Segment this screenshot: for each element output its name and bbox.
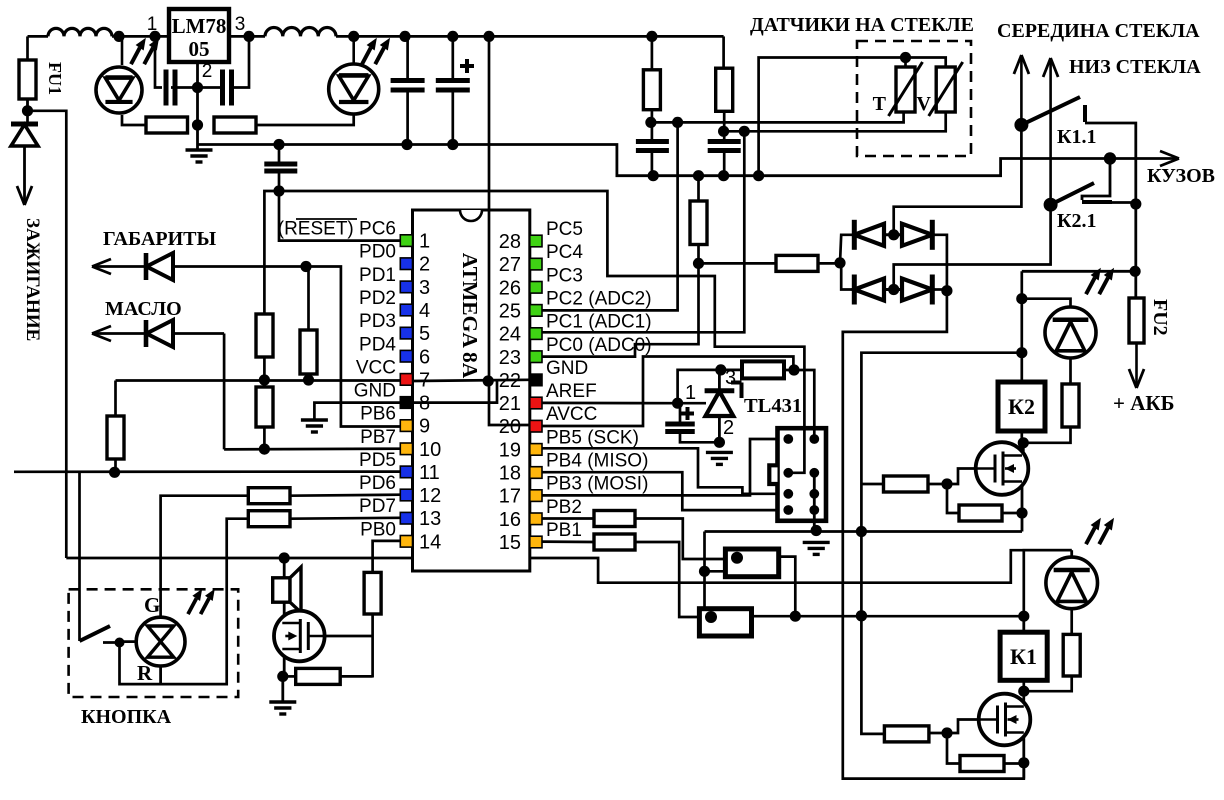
svg-text:PD4: PD4 <box>359 334 396 355</box>
svg-text:22: 22 <box>499 370 521 392</box>
svg-text:10: 10 <box>419 439 441 461</box>
svg-text:G: G <box>144 593 160 617</box>
svg-text:PD7: PD7 <box>359 496 396 517</box>
svg-text:3: 3 <box>235 14 246 35</box>
svg-text:ЗАЖИГАНИЕ: ЗАЖИГАНИЕ <box>22 218 43 341</box>
svg-text:VCC: VCC <box>356 357 396 378</box>
svg-text:PC5: PC5 <box>546 219 583 240</box>
svg-text:PC2 (ADC2): PC2 (ADC2) <box>546 288 652 309</box>
svg-text:4: 4 <box>419 300 430 322</box>
svg-text:НИЗ СТЕКЛА: НИЗ СТЕКЛА <box>1069 56 1201 78</box>
svg-text:1: 1 <box>419 231 430 253</box>
svg-text:R: R <box>137 661 153 685</box>
svg-text:PB4 (MISO): PB4 (MISO) <box>546 451 648 472</box>
svg-text:К2: К2 <box>1008 394 1035 419</box>
svg-text:05: 05 <box>189 37 210 61</box>
svg-text:PD0: PD0 <box>359 242 396 263</box>
svg-text:5: 5 <box>419 323 430 345</box>
svg-text:AVCC: AVCC <box>546 404 597 425</box>
svg-text:PC4: PC4 <box>546 242 583 263</box>
svg-text:3: 3 <box>725 367 736 389</box>
svg-text:МАСЛО: МАСЛО <box>105 298 182 320</box>
svg-text:3: 3 <box>419 277 430 299</box>
svg-text:КНОПКА: КНОПКА <box>81 706 172 728</box>
svg-text:17: 17 <box>499 486 521 508</box>
svg-text:PB1: PB1 <box>546 520 582 541</box>
svg-text:PB5 (SCK): PB5 (SCK) <box>546 427 639 448</box>
svg-text:PD6: PD6 <box>359 473 396 494</box>
svg-text:GND: GND <box>546 358 588 379</box>
svg-text:1: 1 <box>147 14 158 35</box>
svg-text:13: 13 <box>419 508 441 530</box>
svg-text:GND: GND <box>354 381 396 402</box>
svg-text:9: 9 <box>419 416 430 438</box>
svg-text:PB7: PB7 <box>360 427 396 448</box>
svg-text:1: 1 <box>685 382 696 404</box>
svg-text:ГАБАРИТЫ: ГАБАРИТЫ <box>103 228 217 250</box>
svg-text:15: 15 <box>499 532 521 554</box>
svg-text:7: 7 <box>419 369 430 391</box>
svg-text:6: 6 <box>419 346 430 368</box>
svg-text:СЕРЕДИНА СТЕКЛА: СЕРЕДИНА СТЕКЛА <box>997 20 1200 42</box>
svg-text:16: 16 <box>499 509 521 531</box>
svg-text:FU2: FU2 <box>1149 299 1171 336</box>
svg-text:21: 21 <box>499 393 521 415</box>
svg-text:18: 18 <box>499 463 521 485</box>
svg-text:PB6: PB6 <box>360 404 396 425</box>
svg-text:2: 2 <box>419 254 430 276</box>
svg-text:V: V <box>917 93 932 115</box>
svg-text:2: 2 <box>723 417 734 439</box>
svg-text:PC1 (ADC1): PC1 (ADC1) <box>546 312 652 333</box>
svg-text:К1: К1 <box>1010 644 1037 669</box>
svg-text:24: 24 <box>499 324 521 346</box>
svg-text:19: 19 <box>499 439 521 461</box>
svg-text:TL431: TL431 <box>744 395 802 417</box>
svg-text:25: 25 <box>499 300 521 322</box>
svg-text:PD5: PD5 <box>359 450 396 471</box>
svg-text:К2.1: К2.1 <box>1057 210 1097 232</box>
svg-text:LM78: LM78 <box>172 14 227 38</box>
svg-text:27: 27 <box>499 254 521 276</box>
svg-text:23: 23 <box>499 347 521 369</box>
svg-text:ATMEGA 8A: ATMEGA 8A <box>458 253 482 379</box>
svg-text:PD2: PD2 <box>359 288 396 309</box>
svg-text:+ АКБ: + АКБ <box>1113 391 1175 415</box>
svg-text:FU1: FU1 <box>45 62 65 95</box>
svg-text:2: 2 <box>202 61 213 82</box>
svg-text:PD3: PD3 <box>359 311 396 332</box>
svg-text:PB3 (MOSI): PB3 (MOSI) <box>546 474 648 495</box>
svg-text:К1.1: К1.1 <box>1057 126 1097 148</box>
svg-text:PC0 (ADC0): PC0 (ADC0) <box>546 335 652 356</box>
svg-text:26: 26 <box>499 277 521 299</box>
svg-text:12: 12 <box>419 485 441 507</box>
svg-text:20: 20 <box>499 416 521 438</box>
svg-text:28: 28 <box>499 231 521 253</box>
svg-text:ДАТЧИКИ НА СТЕКЛЕ: ДАТЧИКИ НА СТЕКЛЕ <box>750 14 974 36</box>
svg-text:11: 11 <box>419 462 440 484</box>
svg-text:Т: Т <box>873 93 887 115</box>
svg-text:PB2: PB2 <box>546 497 582 518</box>
svg-text:PB0: PB0 <box>360 519 396 540</box>
svg-text:(RESET) PC6: (RESET) PC6 <box>278 219 396 240</box>
svg-text:КУЗОВ: КУЗОВ <box>1147 165 1215 187</box>
svg-text:PD1: PD1 <box>359 265 396 286</box>
svg-text:PC3: PC3 <box>546 265 583 286</box>
svg-text:AREF: AREF <box>546 381 597 402</box>
svg-text:8: 8 <box>419 393 430 415</box>
svg-text:14: 14 <box>419 531 441 553</box>
